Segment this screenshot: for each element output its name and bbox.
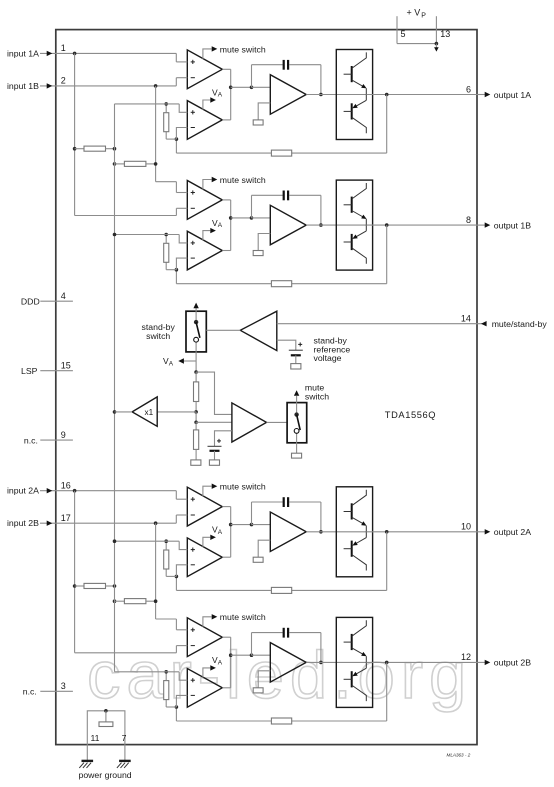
svg-text:4: 4 (61, 291, 66, 301)
reference cell 2B (253, 688, 263, 693)
mute switch control arrow 2A (203, 486, 212, 496)
IC package border (56, 30, 477, 745)
node (385, 661, 389, 665)
svg-text:A: A (218, 660, 223, 667)
wire (195, 402, 197, 412)
node (154, 521, 158, 525)
wire (176, 283, 271, 285)
pin 14 arrow (481, 321, 487, 326)
svg-text:2: 2 (61, 76, 66, 86)
pin 15 lead (40, 370, 73, 372)
wire (115, 540, 180, 542)
wire pin 14 net (277, 323, 487, 325)
node (319, 661, 323, 665)
node (175, 268, 179, 272)
wire (231, 86, 252, 88)
wire (115, 671, 180, 673)
svg-text:mute switch: mute switch (220, 612, 266, 622)
wire (175, 78, 177, 86)
wire (258, 234, 270, 251)
wire (306, 224, 366, 226)
wire (306, 531, 366, 533)
wire (166, 706, 176, 708)
wire (175, 53, 177, 62)
wire (289, 501, 321, 503)
output stage box 1A (336, 50, 372, 140)
wire (366, 661, 477, 663)
pin 13 lead (435, 16, 437, 43)
pin 9 lead (40, 439, 73, 441)
wire (75, 215, 177, 217)
output stage box 2B (336, 617, 372, 707)
wire (251, 65, 253, 88)
node (113, 147, 117, 151)
wire (115, 103, 180, 105)
stand-by control arrow (195, 308, 197, 312)
reference cell mute switch (292, 453, 302, 458)
wire (292, 589, 387, 591)
wire (165, 672, 167, 681)
svg-text:x1: x1 (145, 408, 154, 417)
pin 17 input 2B lead (40, 522, 176, 524)
svg-text:7: 7 (122, 733, 127, 743)
ground symbol pin 11 (82, 760, 94, 762)
pin 4 lead (40, 300, 73, 302)
power op-amp 1B (270, 205, 306, 245)
node (175, 705, 179, 709)
capacitor 1B (283, 191, 285, 201)
svg-text:input 2B: input 2B (7, 518, 39, 528)
svg-text:A: A (218, 529, 223, 536)
reference cell 1B (253, 251, 263, 256)
wire (306, 661, 366, 663)
capacitor mute (208, 445, 222, 447)
wire (196, 421, 232, 423)
svg-text:5: 5 (401, 29, 406, 39)
svg-text:+ V: + V (407, 8, 421, 18)
wire (195, 352, 197, 361)
wire (258, 103, 270, 120)
wire (74, 491, 76, 653)
wire (231, 524, 252, 526)
reference cell 2A (253, 557, 263, 562)
output stage box 1B (336, 180, 372, 270)
node (250, 216, 254, 220)
wire (115, 411, 133, 413)
node (104, 709, 108, 713)
wire (289, 632, 321, 634)
wire (175, 646, 177, 653)
wire (215, 431, 232, 447)
wire (214, 451, 216, 460)
wire (179, 672, 187, 680)
svg-text:mute/stand-by: mute/stand-by (492, 319, 548, 329)
resistor stand-by divider lower (194, 430, 199, 450)
wire (166, 269, 176, 271)
wire (306, 94, 366, 96)
reference cell 1A (253, 120, 263, 125)
wire (176, 128, 187, 140)
reference cell power ground (99, 722, 113, 727)
wire (155, 86, 157, 182)
svg-text:output 1B: output 1B (494, 220, 531, 230)
wire (179, 541, 187, 549)
mute switch control arrow 2B (203, 617, 212, 627)
transistor lower PNP 1B (365, 225, 367, 231)
node (164, 102, 168, 106)
reference cell stand-by (291, 364, 301, 369)
node (250, 653, 254, 657)
wire (386, 532, 388, 591)
node (229, 216, 233, 220)
wire (195, 311, 197, 322)
wire (175, 182, 177, 193)
wire (397, 43, 436, 45)
mute switch contact (294, 412, 298, 416)
wire (258, 540, 270, 557)
svg-text:9: 9 (61, 430, 66, 440)
svg-text:car-led.org: car-led.org (87, 638, 472, 713)
wire (292, 152, 387, 154)
wire (75, 652, 177, 654)
node (319, 93, 323, 97)
wire (165, 541, 167, 550)
wire (231, 217, 252, 219)
output stage box 2A (336, 487, 372, 577)
node (319, 530, 323, 534)
mute switch control arrow 1B (203, 180, 212, 190)
resistor input network 2B (124, 599, 145, 604)
node (229, 86, 233, 90)
wire (230, 637, 232, 688)
wire (292, 720, 387, 722)
node (175, 137, 179, 141)
node (164, 670, 168, 674)
svg-text:mute switch: mute switch (220, 482, 266, 492)
wire (258, 671, 270, 688)
wire (320, 195, 322, 225)
node (175, 575, 179, 579)
node (113, 162, 117, 166)
node (73, 489, 77, 493)
resistor 2A feedback divider (164, 550, 169, 569)
pin 1 input 1A lead (40, 52, 176, 54)
stand-by switch box (186, 311, 206, 352)
node (435, 42, 439, 46)
svg-text:mute switch: mute switch (220, 44, 266, 54)
wire (165, 235, 167, 244)
node (73, 52, 77, 56)
svg-text:output 1A: output 1A (494, 90, 531, 100)
wire (222, 199, 230, 201)
wire (74, 53, 76, 215)
node (229, 523, 233, 527)
svg-text:6: 6 (466, 84, 471, 94)
feedback resistor 1B (271, 281, 291, 287)
wire (231, 654, 252, 656)
transistor upper NPN 2B (351, 634, 353, 650)
reference cell mute (209, 460, 219, 465)
op-amp x1 buffer (132, 397, 157, 426)
svg-text:3: 3 (61, 681, 66, 691)
op-amp 2B input amp (187, 618, 222, 657)
pin 8 output arrow (477, 224, 485, 226)
resistor 2B feedback divider (164, 681, 169, 700)
node (194, 370, 198, 374)
wire (252, 524, 271, 526)
op-amp 1A VA amp (187, 101, 222, 140)
transistor upper NPN 1B (351, 197, 353, 213)
wire (252, 501, 283, 503)
power op-amp 2B (270, 643, 306, 683)
svg-text:A: A (169, 360, 174, 367)
pin 12 output arrow (477, 661, 485, 663)
power op-amp 2A (270, 512, 306, 552)
node (385, 93, 389, 97)
feedback resistor 1A (271, 150, 291, 156)
wire (75, 585, 84, 587)
wire (179, 104, 187, 112)
wire (251, 502, 253, 525)
node (194, 421, 198, 425)
wire (195, 361, 197, 372)
node (194, 410, 198, 414)
wire (222, 636, 230, 638)
resistor input network 1A (84, 146, 106, 151)
capacitor stand-by reference (289, 349, 303, 351)
wire (106, 148, 115, 150)
wire (175, 491, 177, 500)
wire (195, 412, 197, 422)
wire (251, 633, 253, 656)
wire (195, 422, 197, 430)
wire (366, 224, 477, 226)
wire (176, 258, 187, 270)
wire (146, 600, 156, 602)
wire (222, 506, 230, 508)
wire (222, 250, 230, 252)
wire (296, 403, 298, 415)
wire (195, 449, 197, 460)
svg-text:1: 1 (61, 43, 66, 53)
svg-text:output 2A: output 2A (494, 527, 531, 537)
node (319, 223, 323, 227)
svg-text:17: 17 (61, 513, 71, 523)
node (113, 539, 117, 543)
wire (252, 654, 271, 656)
wire (176, 152, 271, 154)
node (113, 599, 117, 603)
svg-text:DDD: DDD (21, 297, 40, 307)
svg-text:13: 13 (440, 29, 450, 39)
wire (366, 531, 477, 533)
op-amp 1B input amp (187, 181, 222, 220)
node (229, 653, 233, 657)
svg-text:voltage: voltage (314, 353, 342, 363)
node (385, 530, 389, 534)
wire (165, 104, 167, 113)
wire (166, 575, 176, 577)
wire (196, 372, 232, 414)
wire (176, 589, 271, 591)
wire (251, 195, 253, 218)
wire (230, 69, 232, 120)
node (164, 539, 168, 543)
op-amp 2B VA amp (187, 669, 222, 708)
wire (230, 200, 232, 251)
pin 6 output arrow (477, 94, 485, 96)
svg-text:switch: switch (146, 331, 170, 341)
svg-text:MLA363 - 2: MLA363 - 2 (447, 753, 471, 758)
pin 11 lead (86, 745, 88, 761)
pin 10 output arrow (477, 531, 485, 533)
node (154, 84, 158, 88)
wire (296, 443, 298, 453)
svg-text:A: A (218, 222, 223, 229)
wire (386, 95, 388, 154)
wire (435, 44, 437, 48)
wire (175, 515, 177, 523)
wire (176, 720, 271, 722)
wire (320, 633, 322, 663)
svg-text:n.c.: n.c. (24, 435, 38, 445)
wire (252, 632, 283, 634)
VA control arrow 2B (203, 668, 210, 678)
transistor lower PNP 1A (365, 95, 367, 101)
VA control arrow 1B (203, 231, 210, 241)
wire (175, 270, 177, 284)
node (154, 162, 158, 166)
svg-text:input 1A: input 1A (7, 48, 39, 58)
svg-text:input 1B: input 1B (7, 81, 39, 91)
transistor lower PNP 2B (365, 662, 367, 668)
node (113, 233, 117, 237)
node (73, 584, 77, 588)
wire (105, 711, 107, 722)
svg-text:12: 12 (461, 652, 471, 662)
pin 16 input 2A lead (40, 490, 176, 492)
wire (252, 64, 283, 66)
mute switch control arrow 1A (203, 49, 212, 59)
wire (295, 355, 297, 363)
stand-by switch contact (194, 320, 198, 324)
svg-text:11: 11 (91, 733, 100, 743)
resistor input network 1B (124, 161, 145, 166)
mute switch box (287, 403, 307, 443)
ground symbol pin 7 (119, 760, 131, 762)
resistor input network 2A (84, 583, 106, 588)
wire (222, 556, 230, 558)
wire (252, 86, 271, 88)
wire (115, 163, 125, 165)
svg-text:8: 8 (466, 215, 471, 225)
wire (156, 618, 177, 620)
wire (175, 139, 177, 153)
wire (222, 68, 230, 70)
wire (156, 181, 177, 183)
transistor upper NPN 2A (351, 503, 353, 519)
wire (175, 707, 177, 721)
VA control arrow 1A (203, 100, 210, 110)
wire (222, 119, 230, 121)
wire (175, 619, 177, 630)
wire (176, 565, 187, 577)
svg-text:n.c.: n.c. (23, 687, 37, 697)
wire (115, 600, 125, 602)
VA tap arrow (184, 360, 197, 362)
mute control arrow (296, 396, 298, 403)
wire (230, 507, 232, 558)
wire (252, 194, 283, 196)
net VA/2 bus (114, 104, 116, 672)
wire (320, 502, 322, 532)
resistor 1B feedback divider (164, 243, 169, 262)
pin 7 lead (124, 745, 126, 761)
svg-text:mute switch: mute switch (220, 175, 266, 185)
svg-text:output 2B: output 2B (494, 658, 531, 668)
resistor 1A feedback divider (164, 113, 169, 132)
power ground box (87, 711, 125, 745)
node (113, 584, 117, 588)
transistor upper NPN 1A (351, 66, 353, 82)
node (250, 523, 254, 527)
wire (292, 283, 387, 285)
node (250, 86, 254, 90)
svg-text:14: 14 (461, 313, 471, 323)
svg-text:15: 15 (61, 361, 71, 371)
svg-text:power ground: power ground (79, 770, 132, 780)
wire (175, 208, 177, 215)
node (164, 233, 168, 237)
VA control arrow 2A (203, 537, 210, 547)
capacitor 2B (283, 628, 285, 638)
wire (176, 695, 187, 707)
op-amp 2A VA amp (187, 538, 222, 577)
svg-text:A: A (218, 92, 223, 99)
svg-text:P: P (421, 13, 426, 20)
node (154, 599, 158, 603)
reference cell divider (191, 460, 201, 465)
capacitor 1A (283, 60, 285, 70)
wire (115, 234, 180, 236)
wire (366, 94, 477, 96)
node (113, 410, 117, 414)
wire (252, 217, 271, 219)
transistor lower PNP 2A (365, 532, 367, 538)
wire (179, 235, 187, 243)
svg-text:switch: switch (305, 391, 329, 401)
wire (386, 225, 388, 284)
node (385, 223, 389, 227)
svg-text:LSP: LSP (21, 366, 38, 376)
op-amp 1A input amp (187, 50, 222, 89)
wire (166, 138, 176, 140)
wire (175, 576, 177, 590)
capacitor 2A (283, 497, 285, 507)
wire (206, 329, 240, 331)
power op-amp 1A (270, 75, 306, 115)
wire (289, 194, 321, 196)
wire (155, 523, 157, 619)
svg-text:TDA1556Q: TDA1556Q (385, 410, 436, 420)
wire (277, 340, 296, 350)
wire (146, 163, 156, 165)
wire (267, 421, 288, 423)
pin 5 lead (396, 16, 398, 43)
wire (157, 411, 196, 413)
op-amp mute comparator (232, 403, 267, 442)
feedback resistor 2B (271, 718, 291, 724)
